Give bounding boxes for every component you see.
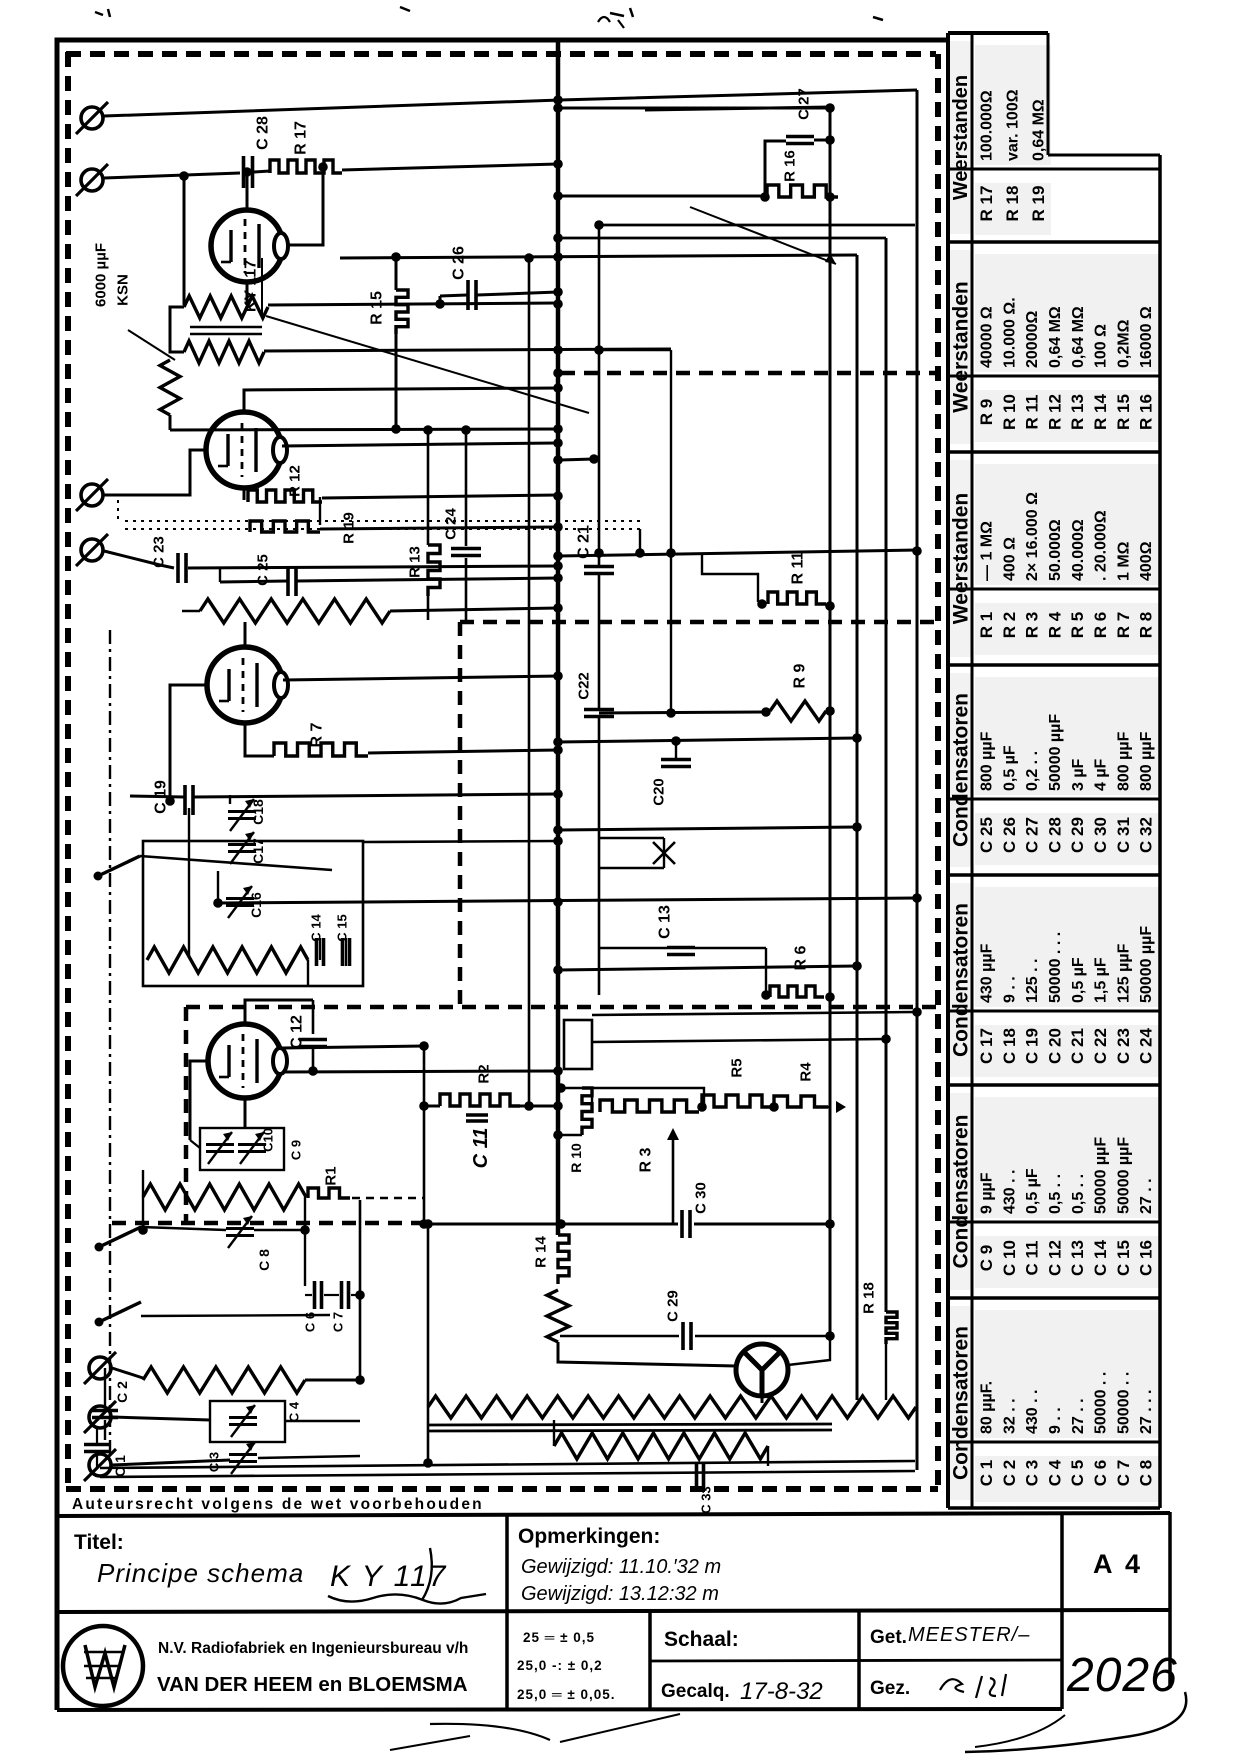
svg-text:32 . .: 32 . . (1001, 1398, 1018, 1434)
svg-text:100 Ω: 100 Ω (1093, 324, 1110, 368)
wire transformer to bus h8 (268, 303, 558, 305)
resistor R1 zigzag (143, 1184, 306, 1210)
svg-text:0,5 µF: 0,5 µF (1001, 745, 1018, 791)
wire second zigzag ends (553, 1420, 555, 1446)
table section Condensatoren C 25-C 32 box (975, 677, 1159, 795)
wire SW1 into box (140, 856, 332, 870)
wire h C20 row (558, 738, 857, 742)
wire tube1 to IF transformer (246, 282, 249, 305)
svg-text:R 12: R 12 (286, 465, 303, 497)
capacitor C22 (584, 708, 614, 712)
svg-text:R 17: R 17 (977, 186, 996, 222)
title block bottom border (57, 1709, 1062, 1710)
svg-text:C 2: C 2 (1000, 1460, 1019, 1486)
svg-text:R 3: R 3 (1023, 612, 1042, 638)
wire R15 up (395, 257, 398, 290)
wire T6 to box (112, 1417, 210, 1420)
capacitor C12 (312, 1000, 315, 1034)
wire tube2 left to terminal T3 (104, 450, 206, 495)
capacitor C33 (695, 1464, 699, 1490)
coil small vertical (160, 360, 180, 415)
torn paper scan marks bottom right (965, 1692, 1186, 1752)
trimmer box C9 C10 (200, 1128, 284, 1170)
wire zigzag left vertical (427, 1224, 430, 1407)
wire T5 to coil (112, 1368, 143, 1378)
table divider line (948, 1441, 1160, 1444)
inner dashed border top (66, 51, 936, 57)
svg-text:Weerstanden: Weerstanden (949, 281, 972, 413)
svg-text:C10: C10 (261, 1128, 276, 1152)
mid rail vertical x529 (528, 258, 531, 1106)
svg-text:0,5 . .: 0,5 . . (1047, 1174, 1064, 1214)
right rail wire v4 from corner (916, 90, 919, 1470)
wire caps row (305, 1294, 312, 1296)
wire C25 (220, 581, 287, 582)
svg-text:C 1: C 1 (977, 1460, 996, 1486)
svg-text:C20: C20 (650, 778, 667, 806)
svg-text:C 23: C 23 (150, 536, 167, 568)
svg-text:R 7: R 7 (309, 722, 326, 747)
svg-text:C 12: C 12 (289, 1015, 306, 1049)
svg-text:Auteursrecht volgens de wet vo: Auteursrecht volgens de wet voorbehouden (72, 1496, 484, 1513)
svg-text:C 28: C 28 (1045, 817, 1064, 853)
svg-text:C 2: C 2 (114, 1381, 130, 1403)
wire C28 to R17 (253, 171, 270, 172)
svg-text:50000 . .: 50000 . . (1115, 1372, 1132, 1434)
svg-text:25,0 -: ± 0,2: 25,0 -: ± 0,2 (517, 1658, 603, 1673)
wire C29 row (560, 1335, 679, 1337)
dash-dot shield vertical (109, 630, 111, 1470)
table section Weerstanden R 1-R 8 box (975, 464, 1159, 585)
svg-text:C 20: C 20 (1045, 1028, 1064, 1064)
wire pair under zigzag (427, 1424, 832, 1425)
svg-text:R 3: R 3 (638, 1147, 655, 1172)
svg-text:Gecalq.: Gecalq. (661, 1681, 730, 1702)
svg-text:R 13: R 13 (406, 546, 423, 578)
svg-text:C 15: C 15 (335, 914, 350, 941)
capacitor C20 (661, 758, 691, 762)
capacitor C11 (466, 1113, 488, 1117)
svg-text:C18: C18 (250, 799, 266, 825)
svg-text:3 µF: 3 µF (1070, 758, 1087, 791)
svg-text:R 6: R 6 (793, 945, 810, 970)
svg-text:2026: 2026 (1066, 1649, 1178, 1702)
resistor R4 (774, 1096, 828, 1107)
svg-text:C17: C17 (250, 838, 266, 864)
resistor R7 (274, 743, 368, 756)
svg-text:100.000Ω: 100.000Ω (979, 90, 996, 161)
table left border (946, 33, 950, 1508)
wire tube4 grid cap top (245, 1000, 313, 1024)
nested corner wire A to rail v4 (599, 224, 915, 227)
resistor R10 vertical (582, 1088, 592, 1135)
wire lamp right (788, 1336, 830, 1365)
svg-text:C 27: C 27 (795, 88, 812, 120)
vertical into C22 row (670, 350, 672, 713)
switch SW3 (95, 1318, 104, 1327)
svg-text:0,64 MΩ: 0,64 MΩ (1047, 306, 1064, 368)
svg-text:C 33: C 33 (699, 1486, 714, 1513)
svg-text:50000 µµF: 50000 µµF (1093, 1137, 1110, 1214)
svg-text:MEESTER/–: MEESTER/– (908, 1624, 1030, 1646)
svg-text:A 4: A 4 (1093, 1549, 1143, 1579)
svg-text:C 21: C 21 (576, 525, 593, 559)
svg-text:C 5: C 5 (1068, 1460, 1087, 1486)
switch SW1 (94, 872, 103, 881)
svg-text:C 9: C 9 (977, 1245, 996, 1271)
table divider line (948, 375, 1160, 378)
lamp bottom lead (761, 1396, 764, 1403)
wire tube2 anode right h13 (282, 443, 558, 446)
wire C8 right (254, 1229, 305, 1231)
svg-text:C 31: C 31 (1114, 817, 1133, 853)
wire tube3 cathode to R7 (245, 723, 274, 756)
svg-text:C 10: C 10 (1000, 1240, 1019, 1276)
wire R18 lower lead (885, 1344, 887, 1400)
svg-text:0,5 . .: 0,5 . . (1070, 1174, 1087, 1214)
capacitor C23 (176, 553, 180, 583)
svg-text:C 11: C 11 (1023, 1241, 1042, 1276)
svg-text:0,5 µF: 0,5 µF (1024, 1168, 1041, 1214)
shielded cable dotted pair (125, 520, 640, 522)
wire C23 to bus h18 (188, 566, 558, 568)
table divider line (948, 798, 1160, 801)
X mark stub (600, 837, 664, 839)
wire anode tube1 to rail (285, 167, 323, 245)
svg-text:Gez.: Gez. (870, 1678, 910, 1699)
wire h1042 (592, 1039, 886, 1042)
capacitor C28 (242, 156, 246, 188)
capacitor C25 (286, 566, 290, 596)
svg-text:R 15: R 15 (369, 291, 386, 325)
capacitor C24 on drop wire (465, 430, 468, 546)
capacitor C21 (584, 565, 614, 569)
wire h17 bus to rail v4 (558, 550, 917, 556)
svg-text:50.000Ω: 50.000Ω (1047, 519, 1064, 581)
svg-text:R5: R5 (728, 1058, 745, 1077)
terminal T1 (81, 107, 103, 129)
svg-text:Condensatoren: Condensatoren (949, 693, 972, 847)
pilot lamp (736, 1344, 788, 1396)
triode tube V3 IF (207, 647, 283, 723)
svg-text:R1: R1 (322, 1166, 339, 1185)
svg-text:R2: R2 (475, 1064, 492, 1083)
wire C13 row (600, 947, 667, 949)
table section Condensatoren C 17-C 24 box (975, 887, 1159, 1007)
svg-text:C 30: C 30 (1091, 817, 1110, 853)
speck marks top edge (95, 7, 883, 20)
mid rail vertical x599 with C21 C22 (598, 225, 601, 566)
HT bus vertical wire (556, 42, 561, 1235)
svg-text:0,5 µF: 0,5 µF (1070, 957, 1087, 1003)
svg-text:R 10: R 10 (568, 1143, 584, 1173)
svg-text:10.000 Ω.: 10.000 Ω. (1001, 297, 1018, 368)
wire R16 right to v1 (825, 192, 835, 202)
svg-text:N.V. Radiofabriek en Ingenieur: N.V. Radiofabriek en Ingenieursbureau v/… (158, 1640, 468, 1657)
wire tube4 bottom lead (244, 1098, 247, 1128)
svg-text:C 8: C 8 (256, 1249, 272, 1271)
svg-text:C 3: C 3 (1023, 1460, 1042, 1486)
svg-text:C16: C16 (248, 892, 264, 918)
svg-text:C 26: C 26 (1000, 817, 1019, 853)
wire bus to R16 (558, 195, 765, 198)
title block mid border (57, 1610, 1170, 1612)
svg-text:25,0 ═ ± 0,05.: 25,0 ═ ± 0,05. (517, 1687, 616, 1702)
capacitor C27 parallel box (765, 141, 786, 197)
svg-text:50000 . .: 50000 . . (1093, 1372, 1110, 1434)
outer border frame (57, 40, 950, 1710)
wire C18 upper link (229, 795, 231, 804)
svg-text:C 17: C 17 (977, 1028, 996, 1064)
wire coil2 right (305, 1379, 360, 1382)
svg-text:Weerstanden: Weerstanden (950, 75, 972, 200)
capacitor C19 (183, 785, 187, 815)
wire tube3 grid left lead (170, 685, 207, 801)
trimmer C3 (229, 1453, 257, 1456)
svg-text:C 18: C 18 (1000, 1028, 1019, 1064)
resistor R3 (600, 1100, 699, 1112)
svg-text:2× 16.000 Ω: 2× 16.000 Ω (1024, 492, 1041, 581)
svg-text:C 24: C 24 (1137, 1028, 1156, 1064)
IF transformer core (190, 326, 262, 329)
wire C19 lower lead (188, 808, 190, 956)
wire C22 row to R9 (599, 712, 764, 713)
svg-text:C 21: C 21 (1068, 1028, 1087, 1064)
svg-text:80 µµF.: 80 µµF. (979, 1381, 996, 1434)
trimmer C4 box (210, 1401, 285, 1442)
wire grid cap tube1 (246, 172, 249, 210)
wire zigzag to box bottom (307, 960, 309, 986)
terminal T6 (89, 1406, 111, 1428)
resistor R5 (702, 1095, 774, 1107)
wire R15 down (395, 334, 398, 428)
svg-text:C 25: C 25 (977, 817, 996, 853)
svg-text:C 28: C 28 (255, 116, 272, 150)
wire R7 to bus (368, 750, 558, 753)
svg-text:Get.: Get. (870, 1627, 907, 1648)
wire SW2 row to C8 (141, 1227, 226, 1230)
title block divider tolerance/schaal (648, 1611, 652, 1710)
wire h1015 (592, 1012, 917, 1015)
svg-text:R 17: R 17 (293, 121, 310, 155)
wire top right h to v1 (645, 107, 830, 110)
svg-text:0,2 . .: 0,2 . . (1024, 751, 1041, 791)
svg-text:Gewijzigd: 13.12:32 m: Gewijzigd: 13.12:32 m (521, 1583, 719, 1605)
wire h970 bus (558, 966, 857, 970)
svg-text:C 15: C 15 (1114, 1240, 1133, 1276)
capacitor C26 (466, 280, 470, 310)
resistor R9 (770, 701, 826, 721)
svg-text:C 9: C 9 (289, 1140, 304, 1160)
svg-text:C 29: C 29 (664, 1290, 681, 1322)
resistor R1 square end (308, 1188, 350, 1198)
svg-text:KY 117: KY 117 (243, 260, 260, 312)
capacitor C15 (341, 938, 345, 966)
svg-text:125 . .: 125 . . (1024, 959, 1041, 1003)
wire SW3 row (141, 1315, 330, 1316)
svg-text:R 13: R 13 (1068, 394, 1087, 430)
svg-text:50000 . . .: 50000 . . . (1047, 932, 1064, 1003)
table section Weerstanden R 9-R 16 box (975, 254, 1159, 372)
capacitor C13 (667, 946, 695, 950)
wire T7 row (112, 1460, 230, 1465)
svg-text:R 18: R 18 (1003, 186, 1022, 222)
svg-text:C 30: C 30 (692, 1182, 709, 1214)
wire R10 top (561, 1087, 588, 1089)
wire SW1 drop to C16 row (217, 871, 219, 903)
svg-text:R 11: R 11 (790, 551, 807, 584)
svg-text:Condensatoren: Condensatoren (949, 1326, 972, 1480)
second long zigzag (554, 1433, 768, 1459)
svg-text:R 16: R 16 (781, 150, 798, 182)
svg-text:0,64 MΩ: 0,64 MΩ (1070, 306, 1087, 368)
annotation arrow to corner (690, 207, 836, 264)
trimmer C16 (226, 897, 254, 900)
wire tube3 grid top (244, 622, 247, 647)
svg-text:1,5 µF: 1,5 µF (1093, 957, 1110, 1003)
switch SW2 (95, 1243, 104, 1252)
svg-text:var. 100Ω: var. 100Ω (1005, 89, 1022, 161)
svg-text:R 1: R 1 (977, 612, 996, 638)
svg-text:800 µµF: 800 µµF (979, 731, 996, 791)
tuning box rect (143, 841, 363, 986)
resistor R6 (770, 986, 824, 997)
wire h6 corner into rail v2 (340, 255, 857, 258)
svg-text:C 8: C 8 (1137, 1460, 1156, 1486)
svg-text:9 µµF: 9 µµF (979, 1172, 996, 1214)
resistor R2 (440, 1094, 520, 1106)
wire x305 vertical (304, 1197, 306, 1286)
table divider line (948, 588, 1160, 591)
table divider line (948, 168, 1160, 171)
svg-text:R 7: R 7 (1114, 612, 1133, 638)
logo circle Van der Heem (63, 1626, 143, 1706)
capacitor C6 (313, 1281, 317, 1309)
svg-text:R 8: R 8 (1137, 612, 1156, 638)
mid rail hook to x671 (599, 349, 671, 352)
svg-text:430 µµF: 430 µµF (979, 943, 996, 1003)
svg-text:Gewijzigd: 11.10.′32 m: Gewijzigd: 11.10.′32 m (521, 1556, 721, 1578)
wire T4 to C23 (104, 551, 174, 568)
small rect above bus (564, 1020, 592, 1069)
resistor R14 on bus (558, 1235, 569, 1284)
svg-text:27 . . .: 27 . . . (1138, 1390, 1155, 1434)
svg-text:9 . .: 9 . . (1047, 1407, 1064, 1434)
table divider line (948, 1010, 1160, 1013)
resistor R13 vertical (427, 430, 430, 545)
svg-text:Principe schema: Principe schema (97, 1558, 304, 1588)
wire h1224 with C30 (424, 1223, 678, 1226)
pointer line label (128, 330, 175, 360)
svg-text:C 14: C 14 (309, 914, 324, 942)
wire tube4 grid left (190, 1061, 208, 1140)
capacitor C2 on drop (104, 1368, 106, 1408)
svg-text:R 2: R 2 (1000, 612, 1019, 638)
svg-text:4 µF: 4 µF (1093, 758, 1110, 791)
wire antenna coupling vertical (183, 175, 186, 305)
trimmer C8 (226, 1227, 254, 1230)
svg-text:17-8-32: 17-8-32 (740, 1678, 823, 1705)
right rail wire v2 from corner (856, 255, 859, 1400)
svg-text:— 1 MΩ: — 1 MΩ (979, 521, 996, 581)
svg-text:C 11: C 11 (470, 1128, 492, 1169)
wire R12 to bus h15 (322, 495, 558, 498)
svg-text:Condensatoren: Condensatoren (949, 903, 972, 1057)
wire T2 to C28 (104, 173, 240, 178)
inner dashed border bottom (66, 1486, 938, 1492)
wire vertical x424 (423, 1046, 426, 1224)
trimmer C18 (228, 810, 256, 813)
title block divider schaal/get (857, 1611, 861, 1710)
resistor R18 vertical (886, 1312, 897, 1344)
svg-text:C 7: C 7 (1114, 1460, 1133, 1486)
resistor R15 vertical (396, 290, 408, 334)
title block divider titel/opmerkingen (505, 1516, 509, 1710)
svg-text:800 µµF: 800 µµF (1115, 731, 1132, 791)
wire box top to bus (363, 841, 558, 842)
wire R8 to bus (390, 608, 558, 611)
resistor R11 (768, 592, 826, 604)
svg-text:C22: C22 (575, 672, 592, 700)
svg-text:C 19: C 19 (1023, 1028, 1042, 1064)
capacitor C29 (681, 1322, 685, 1350)
svg-text:R 15: R 15 (1114, 394, 1133, 430)
dashed screen left edge D3 (184, 1007, 189, 1223)
svg-text:20000Ω: 20000Ω (1024, 311, 1041, 368)
svg-text:50000 µµF: 50000 µµF (1047, 714, 1064, 791)
svg-text:40000 Ω: 40000 Ω (979, 306, 996, 368)
svg-text:. 20.000Ω: . 20.000Ω (1093, 510, 1110, 581)
wire tube2 cathode (243, 488, 246, 500)
svg-text:R 18: R 18 (860, 1282, 877, 1314)
dashed screen line D4 (112, 1221, 424, 1226)
svg-text:C 4: C 4 (287, 1401, 302, 1422)
wire R4 arrow to v1 (828, 1106, 830, 1109)
svg-text:R 14: R 14 (1091, 394, 1110, 430)
capacitor C30 (680, 1210, 684, 1238)
svg-text:C 24: C 24 (442, 508, 459, 540)
svg-text:16000 Ω: 16000 Ω (1138, 306, 1155, 368)
wire R10 bottom (561, 1134, 582, 1136)
svg-text:9 . .: 9 . . (1001, 976, 1018, 1003)
terminal T3 (81, 484, 103, 506)
wire T1 to right rail (104, 90, 917, 116)
wire tube2 grid top (244, 388, 558, 412)
svg-text:R 14: R 14 (532, 1236, 549, 1268)
dash link R1 to junction (352, 1197, 424, 1200)
wire over R3 (592, 1088, 704, 1110)
inner dashed border left (65, 52, 71, 1489)
triode tube V2 mixer (206, 412, 282, 488)
wire h19 (558, 827, 857, 830)
svg-text:50000 µµF: 50000 µµF (1115, 1137, 1132, 1214)
svg-text:R 9: R 9 (792, 663, 809, 688)
wire box to R1 (190, 1140, 200, 1148)
title block right border (1168, 1512, 1172, 1688)
resistor R12 (248, 490, 322, 502)
svg-text:KSN: KSN (114, 274, 131, 306)
svg-text:C 4: C 4 (1045, 1459, 1064, 1486)
wire h905 long (218, 898, 917, 903)
svg-text:C 13: C 13 (657, 905, 674, 939)
arrow tap into R3 (672, 1132, 675, 1223)
wire C19 row (130, 796, 184, 797)
resistor R16 (767, 185, 838, 197)
table section A step lines (1047, 33, 1050, 155)
svg-text:Titel:: Titel: (74, 1531, 124, 1554)
pointer line KY117 to mixer (266, 316, 589, 413)
svg-text:C 32: C 32 (1137, 817, 1156, 853)
